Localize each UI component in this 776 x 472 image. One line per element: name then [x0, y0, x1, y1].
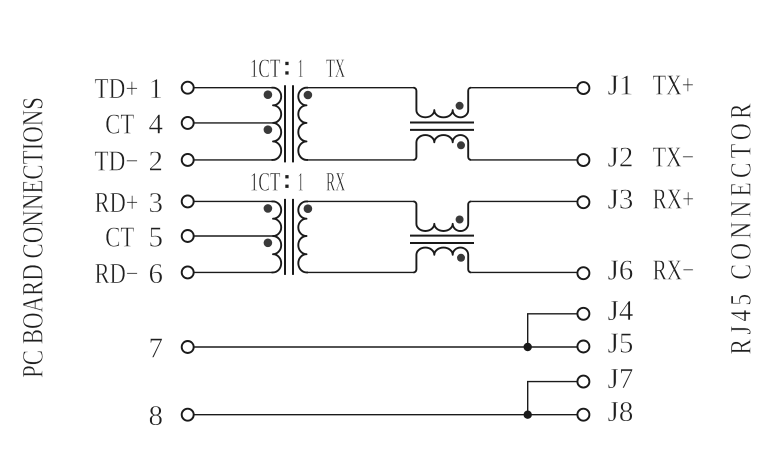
svg-text:TD−: TD−: [95, 145, 139, 177]
polarity dot T1 primary lower half: [264, 125, 273, 134]
polarity dot L1 top: [456, 102, 464, 110]
terminal J5: [577, 341, 589, 353]
transformer T2 primary winding: [195, 200, 274, 202]
svg-text:TX−: TX−: [653, 141, 695, 173]
svg-text:RD+: RD+: [95, 187, 139, 219]
terminal J2: [577, 154, 589, 166]
transformer T2 core: [285, 199, 293, 275]
svg-text:TX: TX: [326, 54, 345, 83]
svg-text:3: 3: [149, 187, 164, 219]
wire choke L1 to J1: [471, 87, 576, 89]
svg-text:J2: J2: [608, 141, 634, 173]
svg-text:1: 1: [298, 167, 304, 196]
svg-text:TD+: TD+: [95, 73, 139, 105]
transformer T1 primary winding: [195, 87, 274, 89]
svg-text:6: 6: [149, 258, 164, 290]
wire T1 pin bottom: [195, 159, 274, 161]
transformer T2 secondary winding: [298, 201, 308, 272]
polarity dot T2 primary top: [264, 204, 273, 213]
pin 4 terminal: [182, 117, 194, 129]
svg-text:7: 7: [149, 333, 164, 365]
wire branch to J4: [528, 314, 577, 347]
svg-text:J8: J8: [608, 396, 634, 428]
svg-text:J5: J5: [608, 328, 634, 360]
pin 8 terminal: [182, 409, 194, 421]
polarity dot T2 secondary: [304, 204, 313, 213]
wire T2 pin bottom: [195, 271, 274, 273]
svg-text:1: 1: [149, 73, 164, 105]
pin 6 terminal: [182, 266, 194, 278]
terminal J4: [577, 308, 589, 320]
svg-text:CT: CT: [105, 108, 134, 140]
wire choke L2 to J3: [471, 200, 576, 202]
terminal J7: [577, 376, 589, 388]
transformer T1 core: [285, 85, 293, 162]
svg-text:1CT: 1CT: [250, 167, 281, 196]
junction node 7/J5: [524, 343, 532, 351]
polarity dot L1 bottom: [457, 141, 465, 149]
svg-text:J7: J7: [608, 363, 634, 395]
svg-text:PC BOARD CONNECTIONS: PC BOARD CONNECTIONS: [16, 97, 49, 378]
wire choke L1 to J2: [471, 159, 576, 161]
svg-text:1CT: 1CT: [250, 54, 281, 83]
transformer T1 secondary winding: [298, 88, 308, 160]
terminal J8: [577, 409, 589, 421]
pin 1 terminal: [182, 82, 194, 94]
wire secondary T2 to choke L2 top: [307, 200, 414, 202]
svg-text:RX: RX: [326, 167, 345, 196]
wire branch to J7: [528, 382, 577, 415]
wire pin8 to J8: [195, 414, 577, 416]
terminal J6: [577, 267, 589, 279]
terminal J3: [577, 196, 589, 208]
choke L2 core: [410, 236, 474, 243]
terminal J1: [577, 82, 589, 94]
svg-text:TX+: TX+: [653, 69, 695, 101]
svg-text:CT: CT: [105, 222, 134, 254]
choke L1 core: [410, 123, 474, 130]
polarity dot L2 top: [456, 216, 464, 224]
T2 primary bumps: [272, 201, 282, 272]
T1 primary bumps: [272, 88, 282, 160]
choke L2 top winding: [413, 201, 471, 231]
svg-text:4: 4: [149, 108, 164, 140]
svg-text:2: 2: [149, 145, 164, 177]
svg-text:5: 5: [149, 222, 164, 254]
polarity dot T1 secondary: [304, 91, 313, 100]
wire secondary T2 to choke L2 bottom: [307, 271, 414, 273]
pin 3 terminal: [182, 195, 194, 207]
wire center tap T1: [195, 122, 274, 124]
wire choke L2 to J6: [471, 271, 576, 273]
polarity dot T1 primary top: [264, 90, 273, 99]
pin 5 terminal: [182, 230, 194, 242]
svg-text:J1: J1: [608, 69, 634, 101]
svg-text:J3: J3: [608, 183, 634, 215]
wire center tap T2: [195, 235, 274, 237]
wire secondary T1 to choke L1 bottom: [307, 159, 414, 161]
svg-text:8: 8: [149, 400, 164, 432]
svg-text:1: 1: [298, 54, 304, 83]
wire secondary T1 to choke L1 top: [307, 87, 414, 89]
svg-text:RX+: RX+: [653, 183, 695, 215]
svg-text:RX−: RX−: [653, 254, 695, 286]
svg-text:RD−: RD−: [95, 258, 139, 290]
svg-text:J4: J4: [608, 295, 634, 327]
choke L1 bottom winding: [413, 135, 471, 160]
choke L1 top winding: [413, 88, 471, 118]
choke L2 bottom winding: [413, 248, 471, 273]
pin 2 terminal: [182, 154, 194, 166]
svg-text:J6: J6: [608, 254, 634, 286]
junction node 8/J8: [524, 411, 532, 419]
polarity dot T2 primary lower half: [264, 239, 273, 248]
polarity dot L2 bottom: [457, 254, 465, 262]
wire pin7 to J5: [195, 346, 577, 348]
pin 7 terminal: [182, 341, 194, 353]
